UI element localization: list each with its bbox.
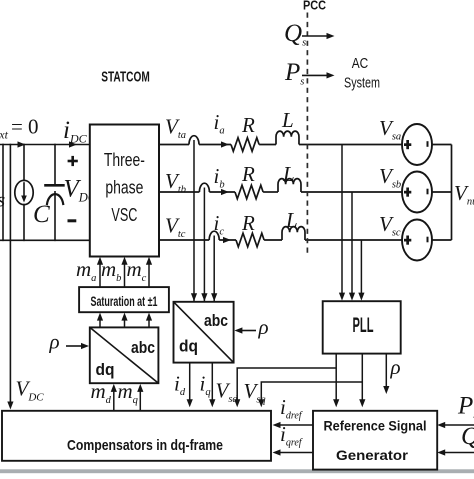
wire: tap b vertical	[203, 188, 205, 304]
wire: source c to right bus	[432, 239, 452, 241]
svg-text:L: L	[281, 108, 294, 132]
Reference Signal Generator box	[313, 411, 437, 470]
label minus	[68, 219, 77, 222]
arrow: P_sref into RSG	[437, 422, 445, 428]
arrow: i_q into compensators	[209, 399, 215, 407]
PCC dashed line	[306, 13, 308, 254]
arrow: i_d into compensators	[187, 399, 193, 407]
wire: source a to right bus	[432, 144, 452, 146]
arrow: sense c into PLL	[358, 293, 364, 301]
arrow: Ps to AC system	[302, 74, 327, 76]
svg-text:Three-: Three-	[104, 150, 145, 170]
AC source a	[402, 124, 432, 165]
arrow: V_sd into compensators	[234, 399, 240, 407]
arrow: VDC down arrow into compensators	[7, 402, 13, 410]
arrow: i_a on phase a	[221, 141, 229, 147]
wire: m_q line	[139, 388, 141, 411]
right abc-dq block	[174, 302, 234, 363]
arrow: m_c into VSC	[146, 257, 152, 265]
wire: rho output of PLL	[385, 354, 387, 387]
wire: m_b line sat to vsc	[124, 262, 126, 288]
source Vsc plus	[404, 236, 411, 245]
wire: tap a vertical	[193, 140, 195, 303]
arrow: tap c into abc-dq	[211, 293, 217, 301]
resistor Rb	[235, 185, 263, 199]
svg-text:C: C	[33, 201, 50, 228]
wire: P_sref input	[444, 424, 474, 426]
svg-text:ρ: ρ	[258, 315, 269, 339]
svg-text:s: s	[0, 188, 5, 212]
wire: PLL sense c	[360, 240, 362, 298]
arrow: i_dref into compensators	[273, 422, 281, 428]
svg-text:R: R	[241, 211, 255, 235]
svg-text:dq: dq	[179, 337, 198, 356]
left dq-abc block	[90, 327, 159, 383]
Compensators box	[2, 411, 271, 461]
wire: line 1 dq-abc to sat	[99, 318, 101, 327]
diagonal of right abc-dq block	[174, 302, 234, 363]
wire: Q_sref input	[444, 452, 474, 454]
wire: Rb to Lb	[263, 191, 278, 193]
arch hop on phase c	[209, 231, 219, 240]
capacitor C top plate	[46, 184, 64, 187]
svg-text:ρ: ρ	[390, 355, 401, 379]
svg-text:phase: phase	[105, 178, 143, 198]
arrow: V_sq into compensators	[258, 399, 264, 407]
arrow: Q_sref into RSG	[437, 449, 445, 455]
svg-text:PLL: PLL	[353, 314, 374, 337]
arrow: into saturation 1	[97, 313, 103, 321]
inductor Lc	[282, 227, 305, 240]
inductor Lb	[278, 179, 301, 192]
wire: i_qref line	[279, 452, 313, 454]
wire: PLL out 2 to RSG	[361, 354, 363, 404]
arrow: into saturation 3	[146, 313, 152, 321]
wire: source b to right bus	[432, 191, 452, 193]
wire: current source branch bottom lead	[23, 205, 25, 241]
svg-text:L: L	[285, 208, 298, 232]
source Vsa ellipse	[402, 124, 432, 165]
arrow: sense b into PLL	[349, 293, 355, 301]
svg-text:Qsref: Qsref	[461, 423, 474, 452]
arrow: into saturation 2	[121, 313, 127, 321]
svg-text:Compensators in dq-frame: Compensators in dq-frame	[67, 437, 223, 454]
VSC box	[90, 125, 159, 257]
source Vsa minus tick	[427, 141, 429, 147]
phase line c	[159, 227, 402, 247]
wire: m_a line sat to vsc	[99, 262, 101, 288]
arrow: rho into right abc-dq	[241, 330, 256, 332]
arrow: m_b into VSC	[121, 257, 127, 265]
wire: right bus vertical	[451, 145, 453, 241]
arrow: tap b into abc-dq	[201, 293, 207, 301]
arrow: rho output head	[383, 386, 389, 394]
resistor Ra	[231, 138, 259, 152]
svg-text:dq: dq	[96, 360, 115, 379]
wire: line 3 dq-abc to sat	[148, 318, 150, 327]
arrow: i_c on phase c	[223, 237, 231, 243]
wire: phase a from VSC to arch	[159, 144, 189, 146]
current source I ellipse	[15, 180, 33, 204]
wire: phase c arch to resistor	[219, 239, 236, 241]
svg-text:VSC: VSC	[111, 205, 137, 225]
svg-text:abc: abc	[131, 338, 155, 357]
wire: PLL out 1 to RSG	[335, 354, 337, 404]
arrows dq-abc to saturation	[100, 262, 149, 327]
arrow: m_d into dq-abc	[111, 384, 117, 392]
inductor La	[276, 131, 299, 144]
wire: m_d line	[113, 388, 115, 411]
capacitor C bottom lead	[54, 192, 56, 241]
arrow: tap a into abc-dq	[191, 293, 197, 301]
source Vsb minus tick	[427, 189, 429, 195]
wire: phase a arch to resistor	[199, 144, 231, 146]
svg-text:Reference Signal: Reference Signal	[324, 418, 427, 434]
source Vsb plus	[404, 188, 411, 197]
wire: Lb to source b	[301, 191, 402, 193]
wire: top DC bus	[0, 144, 90, 146]
resistor Rc	[236, 233, 264, 247]
wire: left branch vertical	[2, 145, 4, 241]
current source internal arrow shaft	[23, 183, 25, 197]
arrow: current source internal arrowhead	[21, 196, 27, 203]
svg-text:ρ: ρ	[49, 330, 60, 354]
svg-text:Saturation at ±1: Saturation at ±1	[91, 293, 158, 309]
Saturation box	[79, 287, 169, 312]
wire: line 2 dq-abc to sat	[124, 318, 126, 327]
diagonal of left dq-abc block	[90, 327, 159, 383]
wire: bottom DC bus	[0, 239, 90, 241]
svg-text:PCC: PCC	[303, 0, 327, 13]
wire: Lc to source c	[305, 239, 402, 241]
arch hop on phase b	[199, 183, 209, 192]
arrow: Qs to AC system	[302, 35, 327, 37]
source Vsb ellipse	[402, 172, 432, 213]
arrow: iDC arrow 2 on top bus	[69, 141, 77, 147]
arrow: m_q into dq-abc	[137, 384, 143, 392]
svg-text:L: L	[282, 162, 295, 186]
svg-text:abc: abc	[204, 311, 228, 330]
bottom grey bar	[0, 469, 474, 473]
arrow: i_b on phase b	[221, 189, 229, 195]
wire: i_d line	[189, 363, 191, 404]
source Vsc minus tick	[427, 237, 429, 243]
arrow: PLL out 2 into RSG	[359, 399, 365, 407]
arrow: i_qref into compensators	[273, 449, 281, 455]
wire: current source branch top lead	[23, 145, 25, 181]
phase line b	[159, 179, 402, 199]
wire: phase b from VSC to arch	[159, 191, 199, 193]
svg-text:System: System	[344, 76, 380, 92]
svg-text:R: R	[241, 162, 255, 186]
source Vsc ellipse	[402, 220, 432, 261]
label plus	[68, 156, 78, 166]
AC source b	[402, 172, 432, 213]
arch hop on phase a	[189, 136, 199, 145]
arrow: PLL out 1 into RSG	[333, 399, 339, 407]
wire: V_sq feed horizontal	[261, 382, 362, 404]
arrow: sense a into PLL	[339, 293, 345, 301]
wire: i_dref line	[279, 424, 313, 426]
wire: PLL sense a	[341, 145, 343, 299]
capacitor C curved plate	[47, 194, 63, 204]
arrow: iDC arrow 1 on top bus	[18, 141, 26, 147]
wire: VDC sense line	[9, 145, 11, 405]
wire: phase b arch to resistor	[209, 191, 235, 193]
source Vsa plus	[404, 140, 411, 149]
wire: PLL sense b	[351, 192, 353, 298]
capacitor C top lead	[54, 145, 56, 185]
arrow: m_a into VSC	[97, 257, 103, 265]
wire: m_c line sat to vsc	[148, 262, 150, 288]
svg-text:AC: AC	[352, 56, 369, 72]
svg-text:STATCOM: STATCOM	[101, 70, 150, 86]
svg-text:Generator: Generator	[336, 447, 409, 463]
wire: V_sd feed horizontal	[237, 368, 336, 404]
svg-text:R: R	[241, 113, 255, 137]
wire: Rc to Lc	[264, 239, 282, 241]
wire: tap c vertical	[213, 236, 215, 304]
wire: i_q line	[211, 363, 213, 404]
arrow: rho into left dq-abc	[66, 345, 82, 347]
AC source c	[402, 220, 432, 261]
wire: Ra to La	[259, 144, 276, 146]
PLL box	[323, 301, 401, 353]
wire: La to source a	[299, 144, 402, 146]
phase line a	[159, 131, 402, 151]
wire: phase c from VSC to arch	[159, 239, 209, 241]
svg-text:Psref: Psref	[457, 393, 474, 422]
